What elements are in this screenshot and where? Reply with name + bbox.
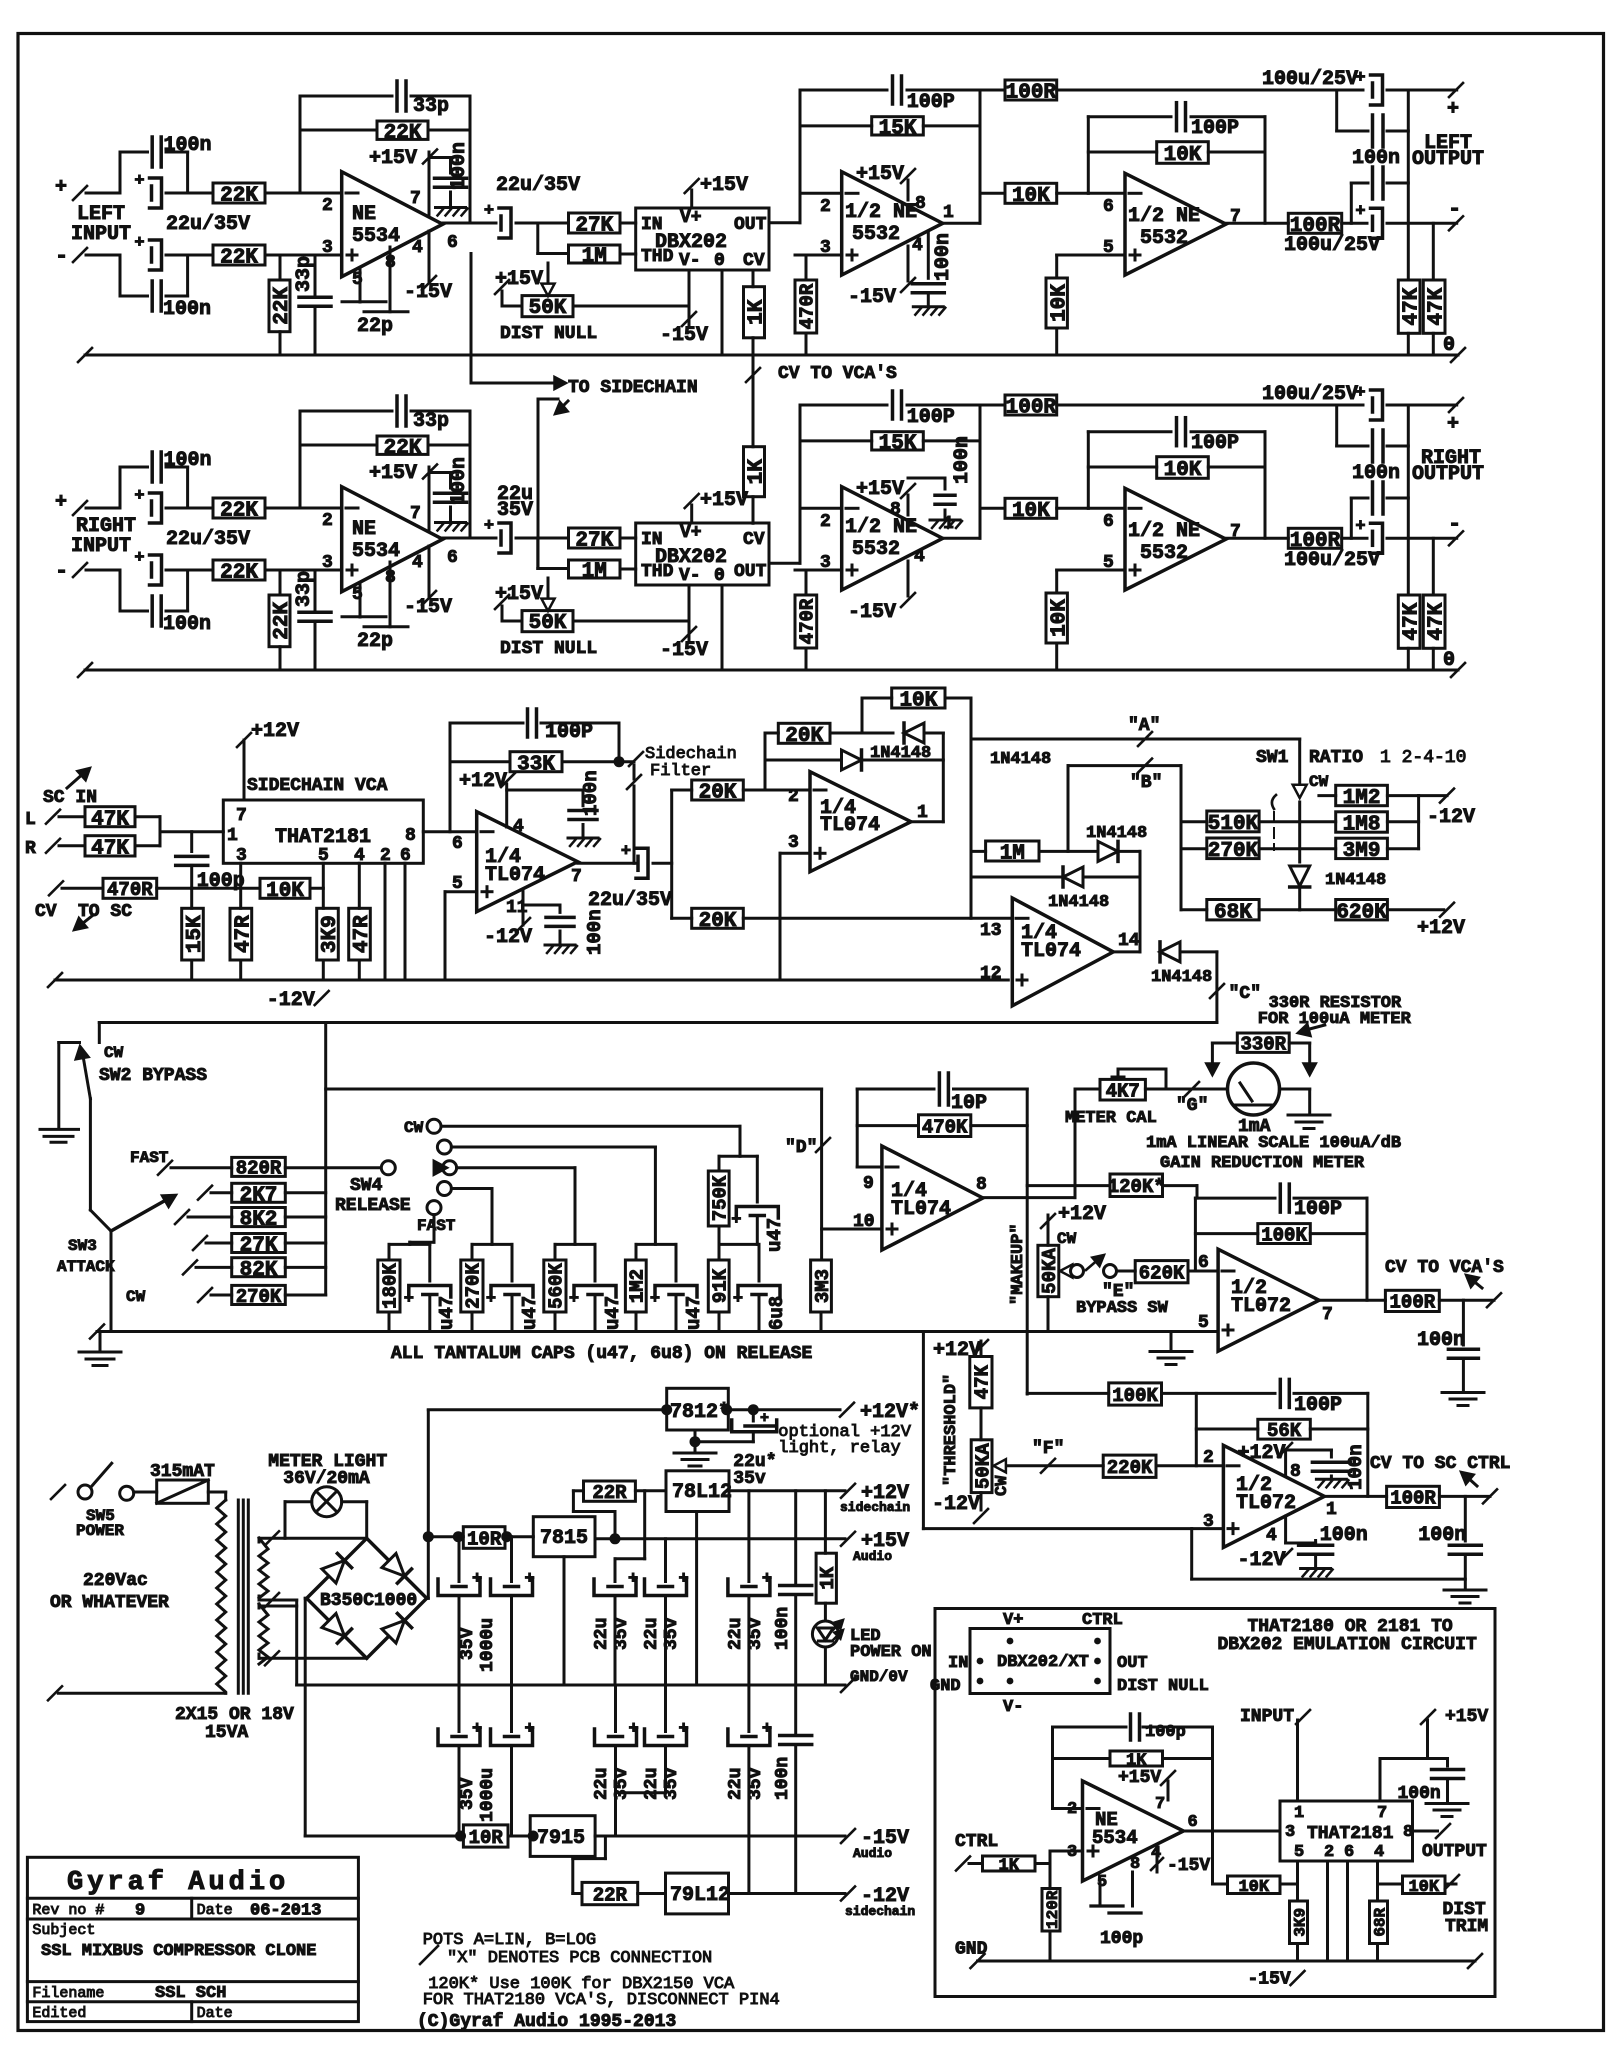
svg-text:CV TO VCA'S: CV TO VCA'S	[1385, 1258, 1504, 1278]
svg-text:78L12: 78L12	[672, 1481, 732, 1504]
svg-text:1N4148: 1N4148	[1086, 824, 1147, 843]
op-amp 1/2 NE5532 first (R)	[799, 405, 802, 563]
resistor 47K load b (R)	[1423, 595, 1445, 648]
resistor 100R output (L)	[1288, 213, 1341, 233]
resistor 68R (emul)	[1376, 1861, 1379, 1901]
svg-text:100u/25V: 100u/25V	[1284, 549, 1380, 572]
capacitor 33p to gnd (R)	[314, 570, 317, 612]
svg-text:-15V: -15V	[660, 324, 708, 347]
switch SW4 release	[427, 1119, 441, 1133]
svg-text:ATTACK: ATTACK	[57, 1258, 115, 1276]
svg-text:4: 4	[1266, 1526, 1277, 1546]
svg-text:+15V: +15V	[856, 163, 904, 186]
capacitor 100n input bypass + (R)	[119, 467, 122, 508]
transformer secondary windings	[259, 1538, 268, 1598]
svg-text:20K: 20K	[699, 782, 737, 805]
svg-text:THD: THD	[641, 247, 674, 267]
resistor 10K feedback (R)	[1088, 466, 1156, 469]
resistor 10R -	[305, 1835, 463, 1838]
svg-text:2X15 OR 18V: 2X15 OR 18V	[175, 1705, 294, 1725]
svg-text:"MAKEUP": "MAKEUP"	[1009, 1223, 1028, 1305]
capacitor 100n input bypass - (L)	[119, 255, 122, 296]
svg-text:+12V: +12V	[1238, 1442, 1286, 1465]
op-amp 1/2 NE5532 second (L)	[1087, 117, 1090, 194]
capacitor 100n SC ctrl out	[1464, 1496, 1467, 1541]
rail -12V sidechain	[55, 979, 1008, 982]
pot 50KA threshold	[971, 1440, 992, 1493]
svg-text:1: 1	[917, 803, 928, 823]
ground	[545, 944, 575, 947]
svg-text:68R: 68R	[1371, 1907, 1389, 1936]
svg-text:L: L	[25, 810, 36, 830]
resistor 270K	[1181, 847, 1207, 850]
resistor 8K2 attack	[175, 1210, 189, 1224]
regulator 78L12	[666, 1471, 729, 1512]
svg-text:35v: 35v	[612, 1767, 632, 1800]
svg-text:+: +	[1355, 517, 1365, 536]
svg-text:SW2 BYPASS: SW2 BYPASS	[99, 1066, 207, 1086]
svg-text:Filter: Filter	[650, 762, 711, 781]
wire raw - rail	[304, 1598, 307, 1836]
capacitor 100n input bypass + (L)	[119, 152, 122, 193]
svg-text:35V: 35V	[458, 1627, 478, 1660]
wire primary return	[58, 1692, 225, 1695]
svg-text:47K: 47K	[1401, 287, 1424, 325]
trimpot bracket meter cal	[1118, 1068, 1166, 1071]
svg-text:100u/25V: 100u/25V	[1284, 234, 1380, 257]
svg-text:100R: 100R	[1006, 397, 1057, 420]
svg-text:8: 8	[976, 1175, 987, 1195]
svg-text:+: +	[404, 1290, 414, 1309]
svg-text:10K: 10K	[1408, 1878, 1439, 1897]
svg-text:10K: 10K	[899, 690, 937, 713]
op-amp 1/4 TL074 rectifier B	[1012, 898, 1113, 1006]
capacitor 100n pin8	[1286, 1449, 1332, 1452]
svg-text:33p: 33p	[293, 571, 316, 607]
svg-text:5532: 5532	[852, 538, 900, 561]
box THAT2180 emulation circuit	[935, 1609, 1495, 1997]
resistor 10K a (emul)	[1213, 1883, 1228, 1886]
svg-text:9: 9	[863, 1174, 874, 1194]
svg-text:330R: 330R	[1240, 1034, 1286, 1056]
capacitor 100n output upper (L)	[1335, 90, 1338, 131]
svg-text:+15V: +15V	[700, 489, 748, 512]
svg-text:100n: 100n	[1345, 1444, 1367, 1490]
svg-text:7: 7	[410, 189, 421, 209]
svg-text:7: 7	[410, 504, 421, 524]
resistor 15K	[190, 888, 193, 908]
output terminal - (L)	[1449, 216, 1463, 230]
svg-text:10K: 10K	[1238, 1878, 1269, 1897]
resistor 1M	[971, 850, 986, 853]
svg-text:22K: 22K	[220, 185, 258, 208]
svg-text:1M2: 1M2	[627, 1269, 649, 1303]
svg-text:35v: 35v	[662, 1767, 682, 1800]
RC pair 180K / u47	[389, 1243, 430, 1246]
wire output	[443, 222, 496, 225]
wire output 5534 (emul)	[1184, 1830, 1281, 1833]
RC pair 750K / u47	[719, 1155, 757, 1158]
svg-text:10K: 10K	[1012, 500, 1050, 523]
svg-text:"C": "C"	[1229, 984, 1261, 1004]
capacitor 22u/35v out	[747, 1491, 750, 1582]
resistor 620K	[1298, 888, 1301, 910]
svg-text:470K: 470K	[922, 1116, 968, 1138]
svg-text:-12V: -12V	[932, 1493, 980, 1516]
capacitor 22u/35V sidechain	[636, 856, 640, 870]
output terminal + (R)	[1449, 398, 1463, 412]
svg-text:7: 7	[1377, 1804, 1387, 1823]
capacitor 100n psu -	[794, 1685, 797, 1736]
svg-text:V-: V-	[1003, 1698, 1023, 1717]
svg-text:CV: CV	[743, 251, 765, 271]
wire pin8 to TL074 buffer	[423, 830, 476, 833]
svg-text:IN: IN	[948, 1654, 968, 1673]
svg-text:+: +	[569, 1290, 579, 1309]
resistor 10K CV	[260, 878, 310, 898]
resistor 15K feedback (R)	[800, 439, 872, 442]
regulator 7915	[530, 1816, 595, 1857]
svg-text:100n: 100n	[951, 436, 974, 484]
capacitor 100n decoupling (5532a L)	[927, 231, 930, 278]
svg-text:8: 8	[915, 194, 926, 214]
svg-text:+12V: +12V	[1417, 917, 1465, 940]
svg-text:CW: CW	[404, 1119, 424, 1137]
label TO SIDECHAIN with arrow	[470, 254, 473, 384]
diode 1N4148 output	[1160, 942, 1180, 962]
svg-text:sidechain: sidechain	[845, 1904, 915, 1919]
svg-text:120K*: 120K*	[1108, 1176, 1165, 1198]
capacitor 100P feedback (TL072b)	[1279, 1379, 1283, 1407]
resistor 1M8	[1336, 812, 1388, 832]
net A	[971, 738, 1300, 741]
svg-text:47R: 47R	[232, 915, 255, 953]
svg-text:V-: V-	[679, 251, 701, 271]
power -15V (DBX202 L)	[688, 270, 691, 325]
ground	[1170, 1332, 1173, 1351]
svg-text:+: +	[628, 1570, 638, 1589]
svg-text:Date: Date	[197, 2005, 233, 2022]
IC THAT2181 sidechain VCA	[223, 800, 423, 863]
svg-text:7815: 7815	[540, 1527, 588, 1550]
wire	[208, 1491, 225, 1494]
svg-text:POWER: POWER	[76, 1522, 124, 1540]
svg-text:7812*: 7812*	[670, 1401, 730, 1424]
svg-text:1M8: 1M8	[1343, 814, 1381, 837]
svg-text:+: +	[525, 1720, 535, 1739]
svg-text:22K: 22K	[220, 562, 258, 585]
svg-text:4: 4	[912, 236, 923, 256]
capacitor 1000u/35V raw + b	[510, 1537, 513, 1582]
svg-text:-: -	[1448, 512, 1461, 537]
op-amp 1/2 NE5532 first (L)	[799, 90, 802, 223]
svg-text:15K: 15K	[879, 432, 917, 455]
svg-text:100n: 100n	[1320, 1524, 1368, 1547]
svg-text:22p: 22p	[357, 315, 393, 338]
op-amp 1/2 TL072 SC ctrl	[1223, 1445, 1324, 1547]
svg-text:GND: GND	[930, 1677, 961, 1696]
svg-text:THD: THD	[641, 562, 674, 582]
diode 1N4148 to +12V	[1290, 866, 1310, 886]
resistor 10K to gnd (R)	[1057, 569, 1125, 572]
wire pin5 to rail	[445, 890, 477, 893]
svg-text:22R: 22R	[593, 1884, 628, 1906]
svg-text:TO SIDECHAIN: TO SIDECHAIN	[568, 378, 698, 398]
svg-text:22u: 22u	[642, 1618, 662, 1650]
resistor 47K load a (L)	[1398, 280, 1420, 333]
svg-text:6: 6	[447, 233, 458, 253]
ground	[1444, 1589, 1486, 1592]
switch SW1 wiper	[1298, 739, 1301, 782]
resistor 27K attack	[193, 1236, 207, 1250]
ground	[568, 837, 598, 840]
power -15V (NE5534 R)	[428, 546, 431, 596]
net C	[1215, 952, 1218, 1023]
svg-text:CTRL: CTRL	[1082, 1611, 1123, 1630]
capacitor 100P sidechain filter fb	[449, 723, 452, 832]
svg-text:620K: 620K	[1139, 1263, 1185, 1285]
svg-text:220Vac: 220Vac	[83, 1571, 148, 1591]
resistor 1K ctrl (emul)	[983, 1856, 1036, 1871]
svg-text:u47: u47	[436, 1296, 458, 1330]
svg-text:100u/25V: 100u/25V	[1262, 383, 1358, 406]
svg-text:DBX202 EMULATION CIRCUIT: DBX202 EMULATION CIRCUIT	[1218, 1635, 1477, 1655]
svg-text:6: 6	[1103, 197, 1114, 217]
svg-text:FOR THAT2180 VCA'S, DISCONNECT: FOR THAT2180 VCA'S, DISCONNECT PIN4	[423, 1991, 780, 2010]
resistor 82K attack	[183, 1260, 197, 1274]
svg-text:-15V: -15V	[404, 596, 452, 619]
svg-text:100P: 100P	[907, 406, 955, 429]
power +15V (NE5534 L)	[428, 152, 431, 216]
svg-text:22K: 22K	[220, 500, 258, 523]
svg-text:NE: NE	[352, 203, 376, 226]
svg-text:10K: 10K	[266, 880, 304, 903]
svg-text:100R: 100R	[1390, 1292, 1436, 1314]
ground	[1279, 1088, 1309, 1091]
svg-text:3: 3	[322, 553, 333, 573]
svg-text:THAT2180 OR 2181 TO: THAT2180 OR 2181 TO	[1248, 1617, 1453, 1637]
svg-text:10: 10	[853, 1212, 875, 1232]
svg-text:Subject: Subject	[32, 1922, 95, 1939]
svg-text:315mAT: 315mAT	[150, 1462, 215, 1482]
resistor 100R upper (L)	[980, 89, 1005, 92]
svg-text:4: 4	[914, 547, 925, 567]
svg-text:1M: 1M	[582, 246, 607, 269]
wire SW4 common	[457, 1166, 575, 1169]
wire SW4 FAST contact	[433, 1215, 436, 1243]
op-amp 1/4 TL074 rectifier A	[810, 772, 911, 872]
svg-text:3: 3	[788, 833, 799, 853]
capacitor 100p	[190, 832, 193, 852]
ground 7815	[563, 1557, 566, 1685]
wire	[1407, 90, 1410, 280]
svg-text:+: +	[1447, 413, 1459, 436]
svg-text:6: 6	[447, 548, 458, 568]
svg-text:V-: V-	[679, 566, 701, 586]
resistor 470R CV	[103, 878, 157, 898]
svg-text:100P: 100P	[1191, 117, 1239, 140]
resistor 1K CV (R)	[744, 447, 765, 497]
svg-text:470R: 470R	[797, 283, 819, 329]
resistor 22K feedback (L)	[300, 129, 377, 132]
svg-text:20K: 20K	[699, 910, 737, 933]
svg-text:6: 6	[1198, 1253, 1209, 1273]
svg-text:TL074: TL074	[485, 864, 545, 887]
node CV TO SC CTRL out	[1483, 1489, 1497, 1503]
fuse 315mAT	[134, 1491, 157, 1494]
wire CV bus to VCAs	[752, 270, 755, 287]
power -15V (NE5534 L)	[428, 231, 431, 281]
resistor 3K9 pin5	[322, 863, 325, 908]
capacitor 22u/35V output (L)	[499, 216, 503, 230]
svg-text:"THRESHOLD": "THRESHOLD"	[942, 1374, 961, 1486]
svg-text:u47: u47	[683, 1296, 705, 1330]
svg-text:100n: 100n	[1352, 462, 1400, 485]
svg-text:100p: 100p	[1145, 1723, 1186, 1742]
svg-text:5: 5	[1294, 1843, 1304, 1862]
svg-text:+15V: +15V	[369, 462, 417, 485]
svg-text:SC IN: SC IN	[43, 788, 97, 808]
capacitor 33p feedback (L)	[299, 96, 302, 193]
svg-text:2: 2	[322, 511, 333, 531]
svg-text:-15V: -15V	[848, 601, 896, 624]
capacitor 100n decoupling +12V	[507, 789, 583, 792]
rail GND/0V	[297, 1684, 845, 1687]
svg-text:100n: 100n	[163, 613, 211, 636]
svg-text:OUTPUT: OUTPUT	[1412, 148, 1484, 171]
svg-text:+: +	[134, 487, 144, 506]
svg-text:ALL TANTALUM CAPS (u47, 6u8) O: ALL TANTALUM CAPS (u47, 6u8) ON RELEASE	[391, 1344, 812, 1364]
svg-text:22K: 22K	[271, 602, 294, 640]
svg-text:SW1: SW1	[1256, 748, 1289, 768]
resistor 330R meter shunt	[1212, 1042, 1237, 1045]
resistor 820R attack	[158, 1161, 172, 1175]
power +12V (ratio)	[1440, 903, 1454, 917]
svg-text:14: 14	[1118, 931, 1140, 951]
svg-text:220K: 220K	[1107, 1457, 1153, 1479]
power +12V (THAT2181)	[243, 740, 246, 800]
svg-text:CW: CW	[126, 1288, 146, 1306]
svg-text:100n: 100n	[773, 1757, 793, 1800]
svg-text:2: 2	[1067, 1800, 1077, 1819]
wire 0 pin to gnd rail	[721, 585, 724, 670]
label X DENOTES PCB CONNECTION	[420, 1946, 438, 1964]
resistor 100R SC ctrl out	[1324, 1495, 1386, 1498]
RC pair 270K / u47	[472, 1243, 512, 1246]
resistor 27K (L)	[569, 213, 621, 233]
svg-text:METER CAL: METER CAL	[1065, 1109, 1157, 1128]
resistor 100R output (R)	[1288, 528, 1341, 548]
svg-text:TRIM: TRIM	[1445, 1917, 1488, 1937]
svg-text:27K: 27K	[240, 1235, 278, 1258]
svg-text:470R: 470R	[107, 879, 153, 901]
svg-text:(C)Gyraf Audio 1995-2013: (C)Gyraf Audio 1995-2013	[417, 2012, 676, 2032]
svg-text:2K7: 2K7	[240, 1184, 278, 1207]
svg-text:OUTPUT: OUTPUT	[1422, 1842, 1487, 1862]
svg-text:8: 8	[890, 500, 901, 520]
svg-text:+: +	[134, 172, 144, 191]
svg-text:RATIO: RATIO	[1309, 748, 1363, 768]
svg-text:12: 12	[980, 964, 1002, 984]
capacitor 33p feedback (R)	[299, 411, 302, 508]
node OUTPUT (emul)	[1413, 1830, 1438, 1833]
op-amp 1/2 TL072 CV driver	[1218, 1249, 1319, 1351]
RC pair 1M2 / u47	[636, 1243, 676, 1246]
capacitor 22u/35v neg a	[614, 1685, 617, 1732]
svg-text:2: 2	[788, 787, 799, 807]
svg-text:+: +	[55, 491, 67, 514]
svg-text:CTRL: CTRL	[955, 1832, 998, 1852]
wire raw + rail	[427, 1410, 430, 1598]
svg-text:22u: 22u	[592, 1768, 612, 1800]
wire net B vertical	[1180, 766, 1183, 910]
wire SW4 CW contact	[441, 1125, 740, 1128]
svg-text:100n: 100n	[773, 1607, 793, 1650]
resistor 22K feedback (R)	[300, 444, 377, 447]
wire D sense	[324, 1023, 327, 1296]
wire to THD network	[536, 538, 539, 569]
op-amp NE5534 (emul)	[1053, 1807, 1083, 1810]
wire bus A vertical	[970, 698, 973, 918]
ground rail timing	[97, 1330, 1218, 1333]
svg-text:+: +	[629, 1720, 639, 1739]
title block	[27, 1857, 358, 2021]
switch E bypass sw	[1060, 1264, 1072, 1277]
capacitor 100P feedback (5532b L)	[1088, 115, 1171, 118]
svg-text:22K: 22K	[384, 437, 422, 460]
svg-text:100P: 100P	[545, 721, 593, 744]
svg-text:47K: 47K	[1426, 287, 1449, 325]
wire	[1366, 1198, 1369, 1300]
svg-text:sidechain: sidechain	[840, 1500, 910, 1515]
svg-text:10P: 10P	[951, 1092, 987, 1115]
svg-text:+: +	[472, 1720, 482, 1739]
svg-text:7: 7	[1155, 1795, 1165, 1814]
svg-text:FAST: FAST	[417, 1217, 456, 1235]
resistor 1M2	[1319, 794, 1336, 797]
svg-text:1/2 NE: 1/2 NE	[1128, 520, 1200, 543]
svg-text:1: 1	[1326, 1500, 1337, 1520]
svg-text:"F": "F"	[1032, 1439, 1064, 1459]
wire	[1407, 405, 1410, 595]
svg-text:SW3: SW3	[68, 1237, 97, 1255]
svg-text:22K: 22K	[384, 122, 422, 145]
ground 7812	[694, 1430, 697, 1442]
resistor 47R pin3	[239, 863, 242, 908]
wire SW4 contact 4	[451, 1187, 492, 1190]
svg-text:INPUT: INPUT	[71, 223, 131, 246]
svg-text:+15V: +15V	[856, 478, 904, 501]
wire 0 pin to gnd rail	[721, 270, 724, 355]
svg-text:1/2 NE: 1/2 NE	[845, 201, 917, 224]
svg-text:1: 1	[1294, 1804, 1304, 1823]
svg-text:7: 7	[571, 867, 582, 887]
resistor 620K makeup	[1117, 1270, 1136, 1273]
wire output	[1226, 537, 1288, 540]
svg-text:1K: 1K	[746, 459, 769, 485]
svg-text:"G": "G"	[1176, 1096, 1208, 1116]
resistor 1M (L)	[569, 245, 621, 263]
svg-text:+: +	[134, 234, 144, 253]
svg-text:CW: CW	[993, 1475, 1012, 1496]
svg-text:1N4148: 1N4148	[1048, 893, 1109, 912]
power -12V (TL074 buffer)	[522, 889, 525, 925]
svg-text:100P: 100P	[907, 91, 955, 114]
svg-text:CV: CV	[35, 902, 57, 922]
resistor 10K to A bus	[862, 697, 892, 700]
svg-text:u47: u47	[764, 1218, 786, 1252]
capacitor 10P feedback	[856, 1089, 859, 1167]
